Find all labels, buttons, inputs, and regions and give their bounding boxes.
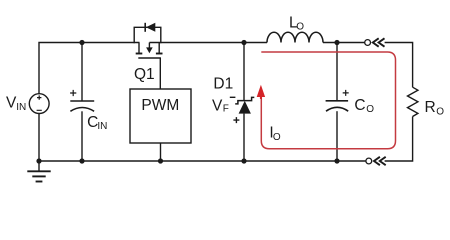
terminal circle top (365, 40, 371, 46)
capacitor CO (326, 90, 349, 111)
svg-text:F: F (223, 104, 229, 115)
wire bottom rail (39, 160, 366, 162)
junction dot D1 top (241, 40, 246, 45)
capacitor CIN (70, 90, 94, 111)
wire D1 bottom (243, 114, 245, 161)
wire CIN bottom stem (81, 111, 83, 161)
minus sign at D1 cathode (230, 96, 236, 98)
wire bottom right to RO (385, 117, 413, 162)
label IO (269, 124, 281, 143)
diode D1 schottky (235, 97, 254, 113)
svg-text:V: V (212, 98, 223, 115)
svg-text:O: O (366, 104, 374, 115)
wire PWM bottom stub (160, 143, 162, 161)
body diode of Q1 (134, 23, 161, 43)
svg-text:IN: IN (16, 102, 26, 113)
wire top right inductor to terminal (323, 42, 365, 44)
svg-text:C: C (354, 97, 365, 114)
junction dot ground (36, 158, 41, 163)
red current loop (261, 52, 395, 149)
label CO (354, 97, 374, 115)
junction dot CIN bottom (79, 158, 84, 163)
svg-text:O: O (273, 132, 281, 143)
wire CO top stem (336, 43, 338, 101)
voltage source VIN (29, 94, 49, 114)
junction dot PWM bottom (158, 158, 163, 163)
chevrons bottom (374, 157, 386, 165)
junction dot D1 bottom (241, 158, 246, 163)
wire CIN top stem (81, 43, 83, 102)
svg-text:D1: D1 (213, 75, 233, 92)
resistor RO (408, 87, 418, 116)
plus sign at D1 anode (233, 117, 239, 123)
svg-text:R: R (425, 99, 436, 116)
svg-text:O: O (296, 22, 304, 33)
svg-text:Q1: Q1 (134, 66, 155, 83)
label CIN (87, 114, 107, 132)
wire top far right to RO (385, 43, 413, 88)
terminal circle bottom (366, 158, 372, 164)
junction dot CO bottom (334, 158, 339, 163)
label VIN (6, 94, 26, 113)
red arrow IO (257, 85, 265, 99)
inductor LO (267, 32, 323, 42)
wire CO bottom stem (336, 111, 338, 161)
wire gate to PWM (159, 58, 161, 89)
junction dot CO top (334, 40, 339, 45)
wire D1 top (243, 43, 245, 101)
label VF (212, 98, 229, 115)
transistor Q1 MOSFET (136, 43, 163, 59)
wire top left from VIN to Q1 drain (39, 43, 140, 94)
svg-text:O: O (436, 106, 444, 117)
label RO (425, 99, 445, 117)
chevrons top (373, 38, 385, 46)
label LO (289, 14, 304, 32)
wire top middle Q1 source to inductor (149, 42, 267, 44)
junction dot CIN top (79, 40, 84, 45)
wire VIN bottom (38, 113, 40, 161)
svg-text:IN: IN (97, 121, 107, 132)
ground (27, 161, 50, 182)
PWM block (130, 89, 191, 143)
svg-text:PWM: PWM (141, 97, 179, 114)
